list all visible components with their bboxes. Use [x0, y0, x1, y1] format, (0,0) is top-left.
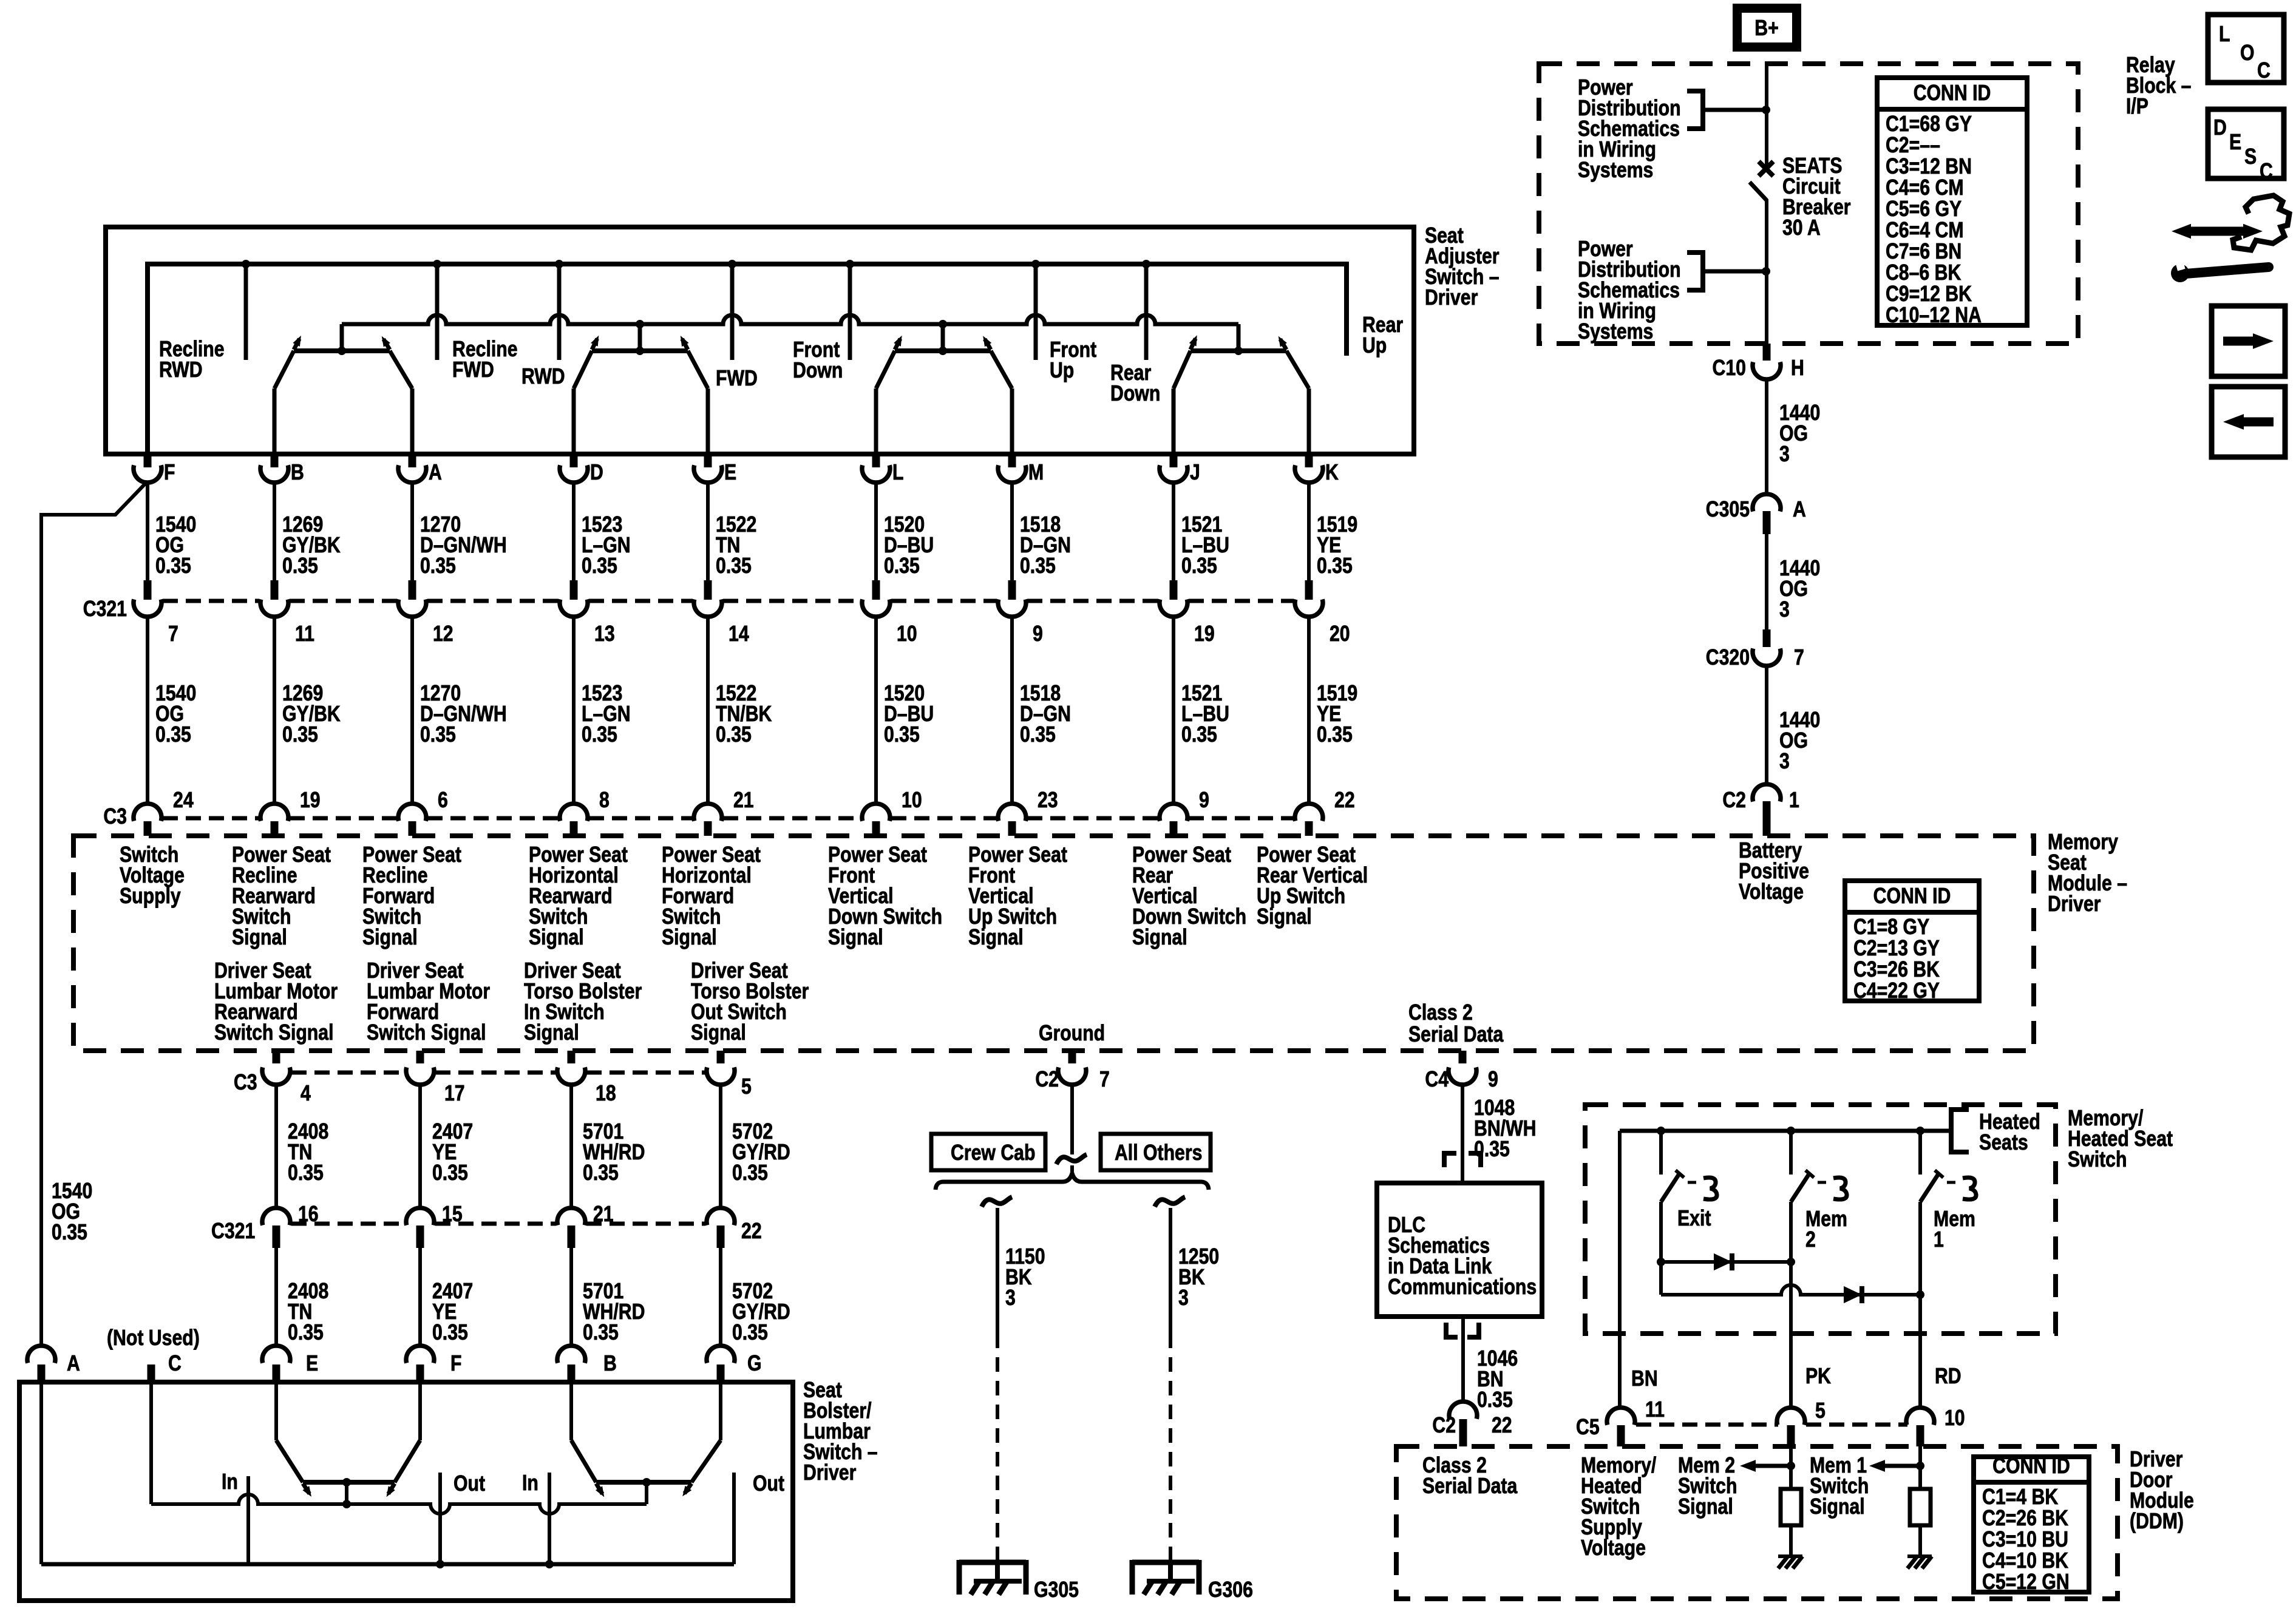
svg-text:30 A: 30 A	[1782, 216, 1821, 240]
svg-text:0.35: 0.35	[732, 1321, 768, 1345]
svg-text:0.35: 0.35	[1317, 723, 1353, 747]
svg-text:14: 14	[729, 622, 749, 646]
svg-text:10: 10	[902, 788, 922, 813]
svg-text:C321: C321	[83, 597, 127, 622]
svg-text:5: 5	[741, 1075, 752, 1099]
svg-text:RWD: RWD	[159, 358, 203, 382]
svg-text:(Not Used): (Not Used)	[107, 1326, 200, 1351]
svg-text:22: 22	[1492, 1414, 1512, 1438]
svg-text:Switch: Switch	[2068, 1148, 2127, 1172]
svg-text:0.35: 0.35	[1181, 554, 1217, 578]
svg-text:0.35: 0.35	[1181, 723, 1217, 747]
svg-text:B: B	[291, 461, 304, 485]
svg-text:0.35: 0.35	[1477, 1388, 1513, 1412]
svg-text:0.35: 0.35	[432, 1321, 468, 1345]
svg-text:12: 12	[433, 622, 453, 646]
svg-text:22: 22	[1334, 788, 1355, 813]
svg-text:Voltage: Voltage	[1739, 880, 1804, 904]
svg-text:Signal: Signal	[362, 926, 418, 950]
svg-text:C2: C2	[1035, 1068, 1059, 1092]
svg-text:L: L	[2219, 22, 2230, 47]
svg-text:1: 1	[1789, 788, 1799, 813]
svg-text:0.35: 0.35	[582, 723, 617, 747]
svg-text:FWD: FWD	[716, 367, 758, 391]
svg-text:8: 8	[599, 788, 610, 813]
svg-text:7: 7	[168, 622, 178, 646]
svg-text:Signal: Signal	[529, 926, 584, 950]
svg-text:0.35: 0.35	[716, 554, 752, 578]
svg-text:I/P: I/P	[2126, 95, 2148, 119]
svg-text:C10: C10	[1713, 356, 1746, 381]
svg-text:Driver: Driver	[803, 1461, 856, 1485]
svg-text:15: 15	[442, 1202, 463, 1227]
svg-text:J: J	[1190, 461, 1200, 485]
svg-text:O: O	[2240, 41, 2255, 66]
svg-text:E: E	[2229, 131, 2241, 155]
svg-text:M: M	[1028, 461, 1044, 485]
svg-text:10: 10	[1944, 1406, 1965, 1431]
svg-text:18: 18	[596, 1082, 616, 1106]
svg-text:Signal: Signal	[232, 926, 287, 950]
svg-text:3: 3	[1178, 1286, 1189, 1310]
svg-text:Switch Signal: Switch Signal	[214, 1021, 334, 1045]
svg-text:C305: C305	[1706, 498, 1750, 522]
svg-text:Signal: Signal	[524, 1021, 579, 1045]
svg-text:A: A	[67, 1352, 80, 1376]
svg-text:Signal: Signal	[1257, 905, 1312, 929]
svg-text:Systems: Systems	[1578, 158, 1653, 183]
svg-text:C3: C3	[103, 805, 127, 829]
svg-text:3: 3	[1005, 1286, 1016, 1310]
svg-text:9: 9	[1199, 788, 1209, 813]
svg-text:20: 20	[1330, 622, 1350, 646]
svg-text:0.35: 0.35	[282, 554, 318, 578]
svg-text:0.35: 0.35	[288, 1321, 324, 1345]
svg-text:0.35: 0.35	[582, 554, 617, 578]
svg-text:F: F	[164, 461, 175, 485]
svg-text:Driver: Driver	[2048, 892, 2101, 917]
svg-text:C: C	[2257, 59, 2271, 83]
svg-text:Voltage: Voltage	[1581, 1536, 1646, 1561]
svg-text:BN: BN	[1631, 1367, 1658, 1391]
svg-text:22: 22	[741, 1219, 762, 1244]
svg-text:Down: Down	[793, 359, 843, 383]
svg-text:E: E	[724, 461, 736, 485]
svg-text:3: 3	[1779, 598, 1790, 622]
svg-text:0.35: 0.35	[420, 723, 456, 747]
svg-text:G306: G306	[1208, 1578, 1253, 1602]
svg-text:10: 10	[897, 622, 917, 646]
svg-text:0.35: 0.35	[1317, 554, 1353, 578]
svg-text:17: 17	[444, 1082, 465, 1106]
svg-text:C5=12 GN: C5=12 GN	[1982, 1570, 2070, 1595]
svg-text:0.35: 0.35	[732, 1161, 768, 1185]
svg-text:16: 16	[298, 1202, 319, 1227]
svg-text:CONN ID: CONN ID	[1914, 81, 1991, 106]
svg-text:3: 3	[1779, 442, 1790, 467]
svg-text:9: 9	[1033, 622, 1043, 646]
svg-text:0.35: 0.35	[1020, 723, 1056, 747]
svg-text:RWD: RWD	[521, 365, 565, 389]
svg-text:0.35: 0.35	[282, 723, 318, 747]
svg-text:6: 6	[438, 788, 448, 813]
svg-text:Supply: Supply	[120, 884, 181, 909]
svg-text:21: 21	[733, 788, 754, 813]
svg-text:0.35: 0.35	[884, 554, 920, 578]
svg-text:Up: Up	[1362, 334, 1387, 358]
svg-text:Systems: Systems	[1578, 320, 1653, 344]
svg-text:0.35: 0.35	[155, 723, 191, 747]
svg-text:0.35: 0.35	[716, 723, 752, 747]
svg-text:Signal: Signal	[662, 926, 717, 950]
svg-text:RD: RD	[1935, 1364, 1961, 1389]
svg-text:13: 13	[594, 622, 615, 646]
svg-text:C2: C2	[1722, 788, 1746, 813]
svg-text:11: 11	[295, 622, 314, 646]
svg-text:D: D	[590, 461, 603, 485]
svg-text:11: 11	[1645, 1398, 1665, 1422]
svg-text:C320: C320	[1706, 646, 1750, 670]
svg-text:Serial Data: Serial Data	[1408, 1023, 1504, 1047]
svg-text:C4: C4	[1425, 1068, 1449, 1092]
svg-text:In: In	[522, 1471, 538, 1496]
svg-text:Signal: Signal	[691, 1021, 746, 1045]
svg-text:Signal: Signal	[1678, 1495, 1733, 1519]
svg-text:CONN ID: CONN ID	[1992, 1454, 2070, 1479]
svg-text:Signal: Signal	[1810, 1495, 1865, 1519]
svg-text:Signal: Signal	[968, 926, 1024, 950]
svg-text:5: 5	[1815, 1399, 1826, 1423]
svg-text:In: In	[222, 1470, 238, 1494]
svg-text:Serial Data: Serial Data	[1422, 1474, 1518, 1499]
svg-text:4: 4	[301, 1082, 311, 1106]
svg-text:Signal: Signal	[828, 926, 883, 950]
svg-text:Seats: Seats	[1979, 1131, 2028, 1155]
svg-text:C5: C5	[1576, 1415, 1600, 1440]
svg-text:H: H	[1791, 356, 1804, 381]
svg-text:23: 23	[1038, 788, 1058, 813]
svg-text:0.35: 0.35	[1020, 554, 1056, 578]
svg-text:C3: C3	[234, 1071, 257, 1095]
svg-text:C4=22 GY: C4=22 GY	[1853, 979, 1940, 1003]
svg-text:1: 1	[1934, 1228, 1944, 1252]
svg-text:All Others: All Others	[1115, 1141, 1202, 1165]
svg-text:Down: Down	[1110, 382, 1160, 406]
svg-text:B+: B+	[1754, 16, 1778, 41]
svg-text:Switch Signal: Switch Signal	[367, 1021, 486, 1045]
svg-text:19: 19	[300, 788, 321, 813]
svg-text:C: C	[2260, 160, 2273, 184]
svg-text:(DDM): (DDM)	[2130, 1510, 2184, 1534]
svg-text:3: 3	[1779, 750, 1790, 774]
svg-text:0.35: 0.35	[52, 1221, 87, 1245]
svg-text:Crew Cab: Crew Cab	[951, 1141, 1035, 1165]
svg-text:Out: Out	[753, 1472, 784, 1496]
svg-text:0.35: 0.35	[884, 723, 920, 747]
svg-text:E: E	[306, 1352, 318, 1376]
svg-text:S: S	[2244, 145, 2257, 169]
svg-text:Communications: Communications	[1388, 1275, 1537, 1300]
svg-text:2: 2	[1805, 1228, 1816, 1252]
svg-text:C2: C2	[1432, 1414, 1456, 1438]
svg-text:B: B	[603, 1352, 617, 1376]
svg-text:Exit: Exit	[1677, 1207, 1711, 1231]
svg-text:Driver: Driver	[1425, 286, 1478, 310]
svg-text:7: 7	[1099, 1068, 1110, 1092]
svg-text:7: 7	[1794, 646, 1804, 670]
svg-text:K: K	[1325, 461, 1339, 485]
svg-text:9: 9	[1488, 1068, 1498, 1092]
svg-text:0.35: 0.35	[432, 1161, 468, 1185]
svg-text:CONN ID: CONN ID	[1873, 884, 1951, 909]
svg-text:Ground: Ground	[1039, 1022, 1105, 1046]
svg-text:0.35: 0.35	[583, 1321, 619, 1345]
svg-text:0.35: 0.35	[420, 554, 456, 578]
svg-text:Out: Out	[453, 1472, 485, 1496]
svg-text:L: L	[892, 461, 903, 485]
svg-text:A: A	[1793, 498, 1806, 522]
svg-text:24: 24	[173, 788, 194, 813]
svg-text:21: 21	[593, 1202, 614, 1227]
svg-text:G305: G305	[1034, 1578, 1079, 1602]
svg-text:F: F	[450, 1352, 461, 1376]
svg-text:19: 19	[1194, 622, 1215, 646]
svg-text:PK: PK	[1805, 1364, 1831, 1389]
svg-text:C10–12 NA: C10–12 NA	[1886, 303, 1982, 328]
svg-text:0.35: 0.35	[583, 1161, 619, 1185]
svg-text:G: G	[747, 1352, 762, 1376]
svg-text:0.35: 0.35	[288, 1161, 324, 1185]
svg-text:C321: C321	[211, 1219, 255, 1244]
svg-text:C: C	[168, 1352, 182, 1376]
svg-text:FWD: FWD	[452, 358, 494, 382]
svg-text:Up: Up	[1050, 359, 1074, 383]
svg-text:0.35: 0.35	[155, 554, 191, 578]
svg-text:D: D	[2213, 116, 2227, 140]
svg-text:A: A	[429, 461, 442, 485]
svg-text:Signal: Signal	[1132, 926, 1187, 950]
svg-text:Class 2: Class 2	[1408, 1001, 1473, 1025]
